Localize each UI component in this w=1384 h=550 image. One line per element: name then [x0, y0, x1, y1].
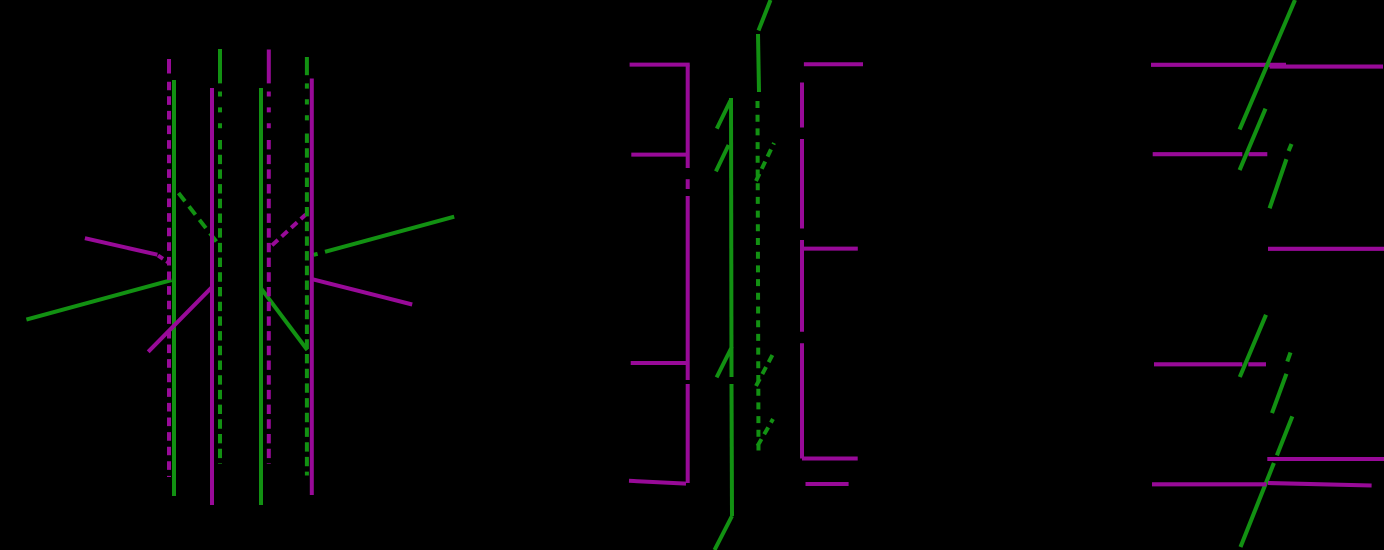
- chromatid V3p purple vertical dashed: [267, 92, 271, 134]
- chromatid V4g green vertical solid top: [305, 57, 309, 75]
- right bracket bottom horizontal: [802, 457, 858, 461]
- left bracket spine segment 2: [686, 196, 690, 380]
- arm C purple solid upper-left diagonal: [85, 238, 157, 255]
- purple chromosome P3: [1268, 247, 1384, 251]
- chromatid V3p purple vertical solid top: [267, 50, 271, 84]
- green chromosome F long diagonal lower part: [1241, 463, 1274, 547]
- purple chromosome P1a: [1151, 63, 1286, 67]
- right bracket floating short horizontal: [806, 482, 849, 486]
- break slash S1: [717, 101, 731, 129]
- purple chromosome P5: [1267, 457, 1384, 461]
- left bracket spine segment 1: [686, 65, 690, 168]
- green main chromosome vertical lower: [730, 384, 735, 516]
- arm C purple dashed tail: [158, 256, 169, 263]
- right bracket spine segment 1: [800, 83, 804, 128]
- green sister chromatid M3 dashed vertical: [758, 101, 759, 453]
- arm F green nub at purple vertical: [314, 254, 318, 255]
- green dashed A3 dash: [1289, 144, 1292, 151]
- left bracket spine dash: [686, 179, 690, 189]
- chromatid V1p purple dashed vertical: [167, 82, 171, 477]
- purple chromosome P4 left part: [1154, 362, 1242, 366]
- left bracket spine segment 3: [686, 384, 690, 483]
- chromatid V2g green vertical dashed: [218, 92, 222, 134]
- green chromosome A2 diagonal: [1240, 109, 1266, 170]
- chromatid V4g green vertical dashed: [305, 83, 309, 128]
- purple chromosome P6a: [1152, 482, 1267, 486]
- chromatid V1p purple top dash stub: [167, 59, 171, 74]
- right bracket spine segment 4: [800, 343, 804, 458]
- purple chromosome P2 left part: [1153, 152, 1243, 156]
- break slash S2: [716, 145, 729, 171]
- chromatid A1 green dashed crossover diagonal: [179, 193, 220, 246]
- green dashed A3 segment: [1270, 159, 1287, 208]
- left bracket horizontal 3: [631, 361, 686, 365]
- arm H green solid lower-right diagonal: [261, 288, 307, 350]
- right bracket horizontal 2: [802, 247, 858, 251]
- arm F green solid upper-right diagonal: [325, 217, 454, 252]
- chromatid B1 purple dashed crossover diagonal: [272, 215, 306, 246]
- green main chromosome vertical upper: [729, 98, 734, 377]
- green dashed B2 dash: [1287, 353, 1290, 362]
- left bracket horizontal 2: [631, 153, 686, 157]
- right bracket spine segment 3: [800, 240, 804, 332]
- chromatid V2p purple solid vertical: [210, 88, 214, 505]
- break slash S3: [717, 347, 732, 378]
- arm G purple solid right diagonal: [312, 279, 413, 304]
- chromatid V2g green vertical solid top: [218, 49, 222, 83]
- chromatid V4p purple solid vertical: [310, 79, 314, 496]
- green main chromosome bottom tail: [715, 516, 733, 550]
- left bracket bottom horizontal: [629, 481, 686, 484]
- green chromosome A1 diagonal: [1240, 0, 1295, 130]
- green chromosome B1 diagonal: [1240, 315, 1266, 377]
- green chromosome segment M2 solid: [758, 34, 759, 92]
- left bracket top horizontal: [630, 63, 690, 67]
- dashed break slash DS2: [756, 352, 774, 386]
- chromatid V3g green solid vertical: [259, 88, 263, 505]
- green chromosome F long diagonal upper part: [1277, 416, 1292, 455]
- purple chromosome P6b: [1268, 483, 1372, 486]
- right bracket top horizontal: [804, 62, 863, 66]
- arm E purple solid lower-left diagonal: [148, 287, 212, 352]
- green dashed B2 segment: [1272, 374, 1286, 413]
- purple chromosome P1b: [1270, 65, 1383, 69]
- dashed break slash DS1: [756, 143, 774, 181]
- green chromosome top slanted segment M1: [759, 0, 771, 31]
- dashed break slash DS3: [758, 419, 774, 446]
- purple chromosome P4 right part: [1248, 362, 1266, 366]
- chromatid V1g green solid vertical: [172, 80, 176, 496]
- right bracket spine segment 2: [800, 139, 804, 229]
- arm D green solid lower-left diagonal: [26, 280, 171, 320]
- purple chromosome P2 right part: [1249, 152, 1268, 156]
